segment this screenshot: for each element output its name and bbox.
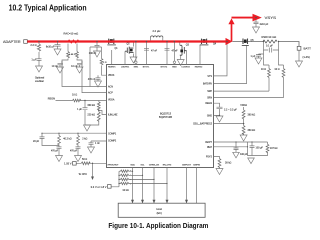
svg-text:10 Ω: 10 Ω (274, 68, 279, 71)
svg-text:4.99 Ω: 4.99 Ω (69, 54, 76, 56)
svg-text:40.2 kΩ: 40.2 kΩ (63, 138, 72, 141)
svg-text:50 Ω: 50 Ω (82, 158, 87, 161)
svg-text:470 pF: 470 pF (70, 151, 78, 153)
svg-text:SDA: SDA (130, 163, 135, 166)
svg-text:2 Ω: 2 Ω (103, 62, 107, 64)
svg-text:4x10 μF: 4x10 μF (260, 23, 269, 26)
svg-text:2.2 Ω: 2.2 Ω (30, 43, 36, 47)
svg-text:2 kΩ: 2 kΩ (82, 138, 87, 141)
svg-text:(1-4S): (1-4S) (303, 55, 310, 59)
svg-text:CELL_BATPRESZ: CELL_BATPRESZ (193, 123, 213, 126)
svg-text:10 Ω: 10 Ω (72, 94, 77, 97)
svg-text:ADAPTER: ADAPTER (3, 40, 21, 44)
svg-text:REGN: REGN (48, 97, 55, 100)
svg-text:HIDRV2: HIDRV2 (195, 67, 203, 69)
svg-text:470 nF: 470 nF (88, 78, 96, 81)
svg-text:CMPOUT: CMPOUT (182, 164, 192, 166)
svg-text:BTST1: BTST1 (143, 67, 150, 69)
svg-text:LODRV1: LODRV1 (121, 67, 130, 69)
svg-text:VSYS: VSYS (265, 16, 277, 20)
svg-text:HIDRV1: HIDRV1 (108, 67, 116, 69)
svg-text:EN_OTG: EN_OTG (163, 164, 172, 166)
svg-text:470 pF: 470 pF (51, 151, 59, 153)
svg-text:BQ25713B: BQ25713B (159, 115, 172, 119)
svg-text:(EC): (EC) (157, 212, 162, 215)
svg-text:ACN: ACN (108, 86, 113, 89)
svg-text:CMPIN: CMPIN (193, 164, 200, 166)
svg-text:100 nF: 100 nF (89, 52, 97, 55)
svg-text:3.3 V or 1.8 V: 3.3 V or 1.8 V (91, 185, 107, 189)
svg-text:/PROCHOT: /PROCHOT (108, 164, 120, 166)
svg-text:360 kΩ: 360 kΩ (87, 104, 95, 107)
svg-text:1 μF: 1 μF (77, 108, 82, 111)
svg-text:ILIM_HIZ: ILIM_HIZ (108, 115, 118, 117)
svg-text:IADPT: IADPT (205, 141, 212, 144)
svg-text:30 kΩ: 30 kΩ (225, 162, 232, 165)
svg-text:20 pF: 20 pF (33, 140, 40, 143)
svg-text:RSR=10 mΩ: RSR=10 mΩ (262, 35, 277, 39)
svg-text:47 nF: 47 nF (151, 49, 158, 52)
svg-text:107 kΩ: 107 kΩ (270, 147, 278, 150)
svg-text:10 nF: 10 nF (71, 65, 78, 68)
svg-text:To CPU: To CPU (78, 173, 87, 176)
svg-text:PSYS: PSYS (206, 157, 213, 159)
svg-text:10 nF: 10 nF (52, 65, 59, 68)
svg-text:RAC=10 mΩ: RAC=10 mΩ (64, 32, 79, 36)
svg-text:LODRV2: LODRV2 (181, 67, 190, 69)
svg-text:REGN: REGN (205, 103, 212, 105)
svg-text:100 μF: 100 μF (256, 147, 264, 150)
svg-text:CHRG_OK: CHRG_OK (149, 164, 160, 166)
svg-text:BATDRV: BATDRV (203, 83, 213, 86)
svg-text:SRP: SRP (207, 91, 212, 93)
svg-text:10.2 Typical Application: 10.2 Typical Application (9, 4, 87, 13)
svg-text:2.2 – 3.3 μF: 2.2 – 3.3 μF (224, 108, 237, 111)
svg-text:BATT: BATT (304, 47, 312, 51)
svg-text:1 nF: 1 nF (95, 142, 100, 145)
svg-text:GND: GND (207, 115, 212, 117)
svg-text:6x10 μF: 6x10 μF (46, 45, 55, 48)
svg-text:1 μF: 1 μF (31, 58, 37, 62)
svg-text:BTST2: BTST2 (161, 67, 168, 69)
svg-text:COMP2: COMP2 (108, 140, 117, 142)
svg-text:1 μF: 1 μF (251, 55, 256, 58)
svg-text:2.2 μH: 2.2 μH (153, 29, 161, 33)
svg-text:SRN: SRN (207, 98, 212, 100)
svg-text:ACP: ACP (108, 92, 113, 95)
svg-text:360 kΩ: 360 kΩ (248, 114, 256, 117)
svg-text:VBUS: VBUS (108, 75, 115, 77)
svg-text:BQ25713: BQ25713 (160, 112, 172, 116)
svg-text:Host: Host (156, 207, 162, 211)
svg-text:VDDA: VDDA (108, 98, 115, 101)
svg-text:COMP1: COMP1 (108, 133, 117, 135)
svg-text:10 Ω: 10 Ω (261, 68, 266, 71)
svg-text:SYS: SYS (207, 76, 212, 78)
svg-text:snubber: snubber (35, 80, 44, 83)
svg-text:100 pF: 100 pF (240, 153, 248, 156)
svg-text:10 kΩ: 10 kΩ (122, 189, 129, 192)
svg-text:Figure 10-1. Application Diagr: Figure 10-1. Application Diagram (108, 223, 208, 230)
svg-text:IBAT: IBAT (207, 146, 213, 149)
svg-text:1.05 V: 1.05 V (64, 161, 72, 165)
svg-text:360 kΩ: 360 kΩ (248, 129, 256, 132)
svg-text:220 kΩ: 220 kΩ (87, 113, 95, 116)
svg-text:0.1 μF: 0.1 μF (266, 45, 273, 48)
svg-text:VDDA: VDDA (240, 104, 247, 107)
svg-text:47 nF: 47 nF (172, 49, 179, 52)
